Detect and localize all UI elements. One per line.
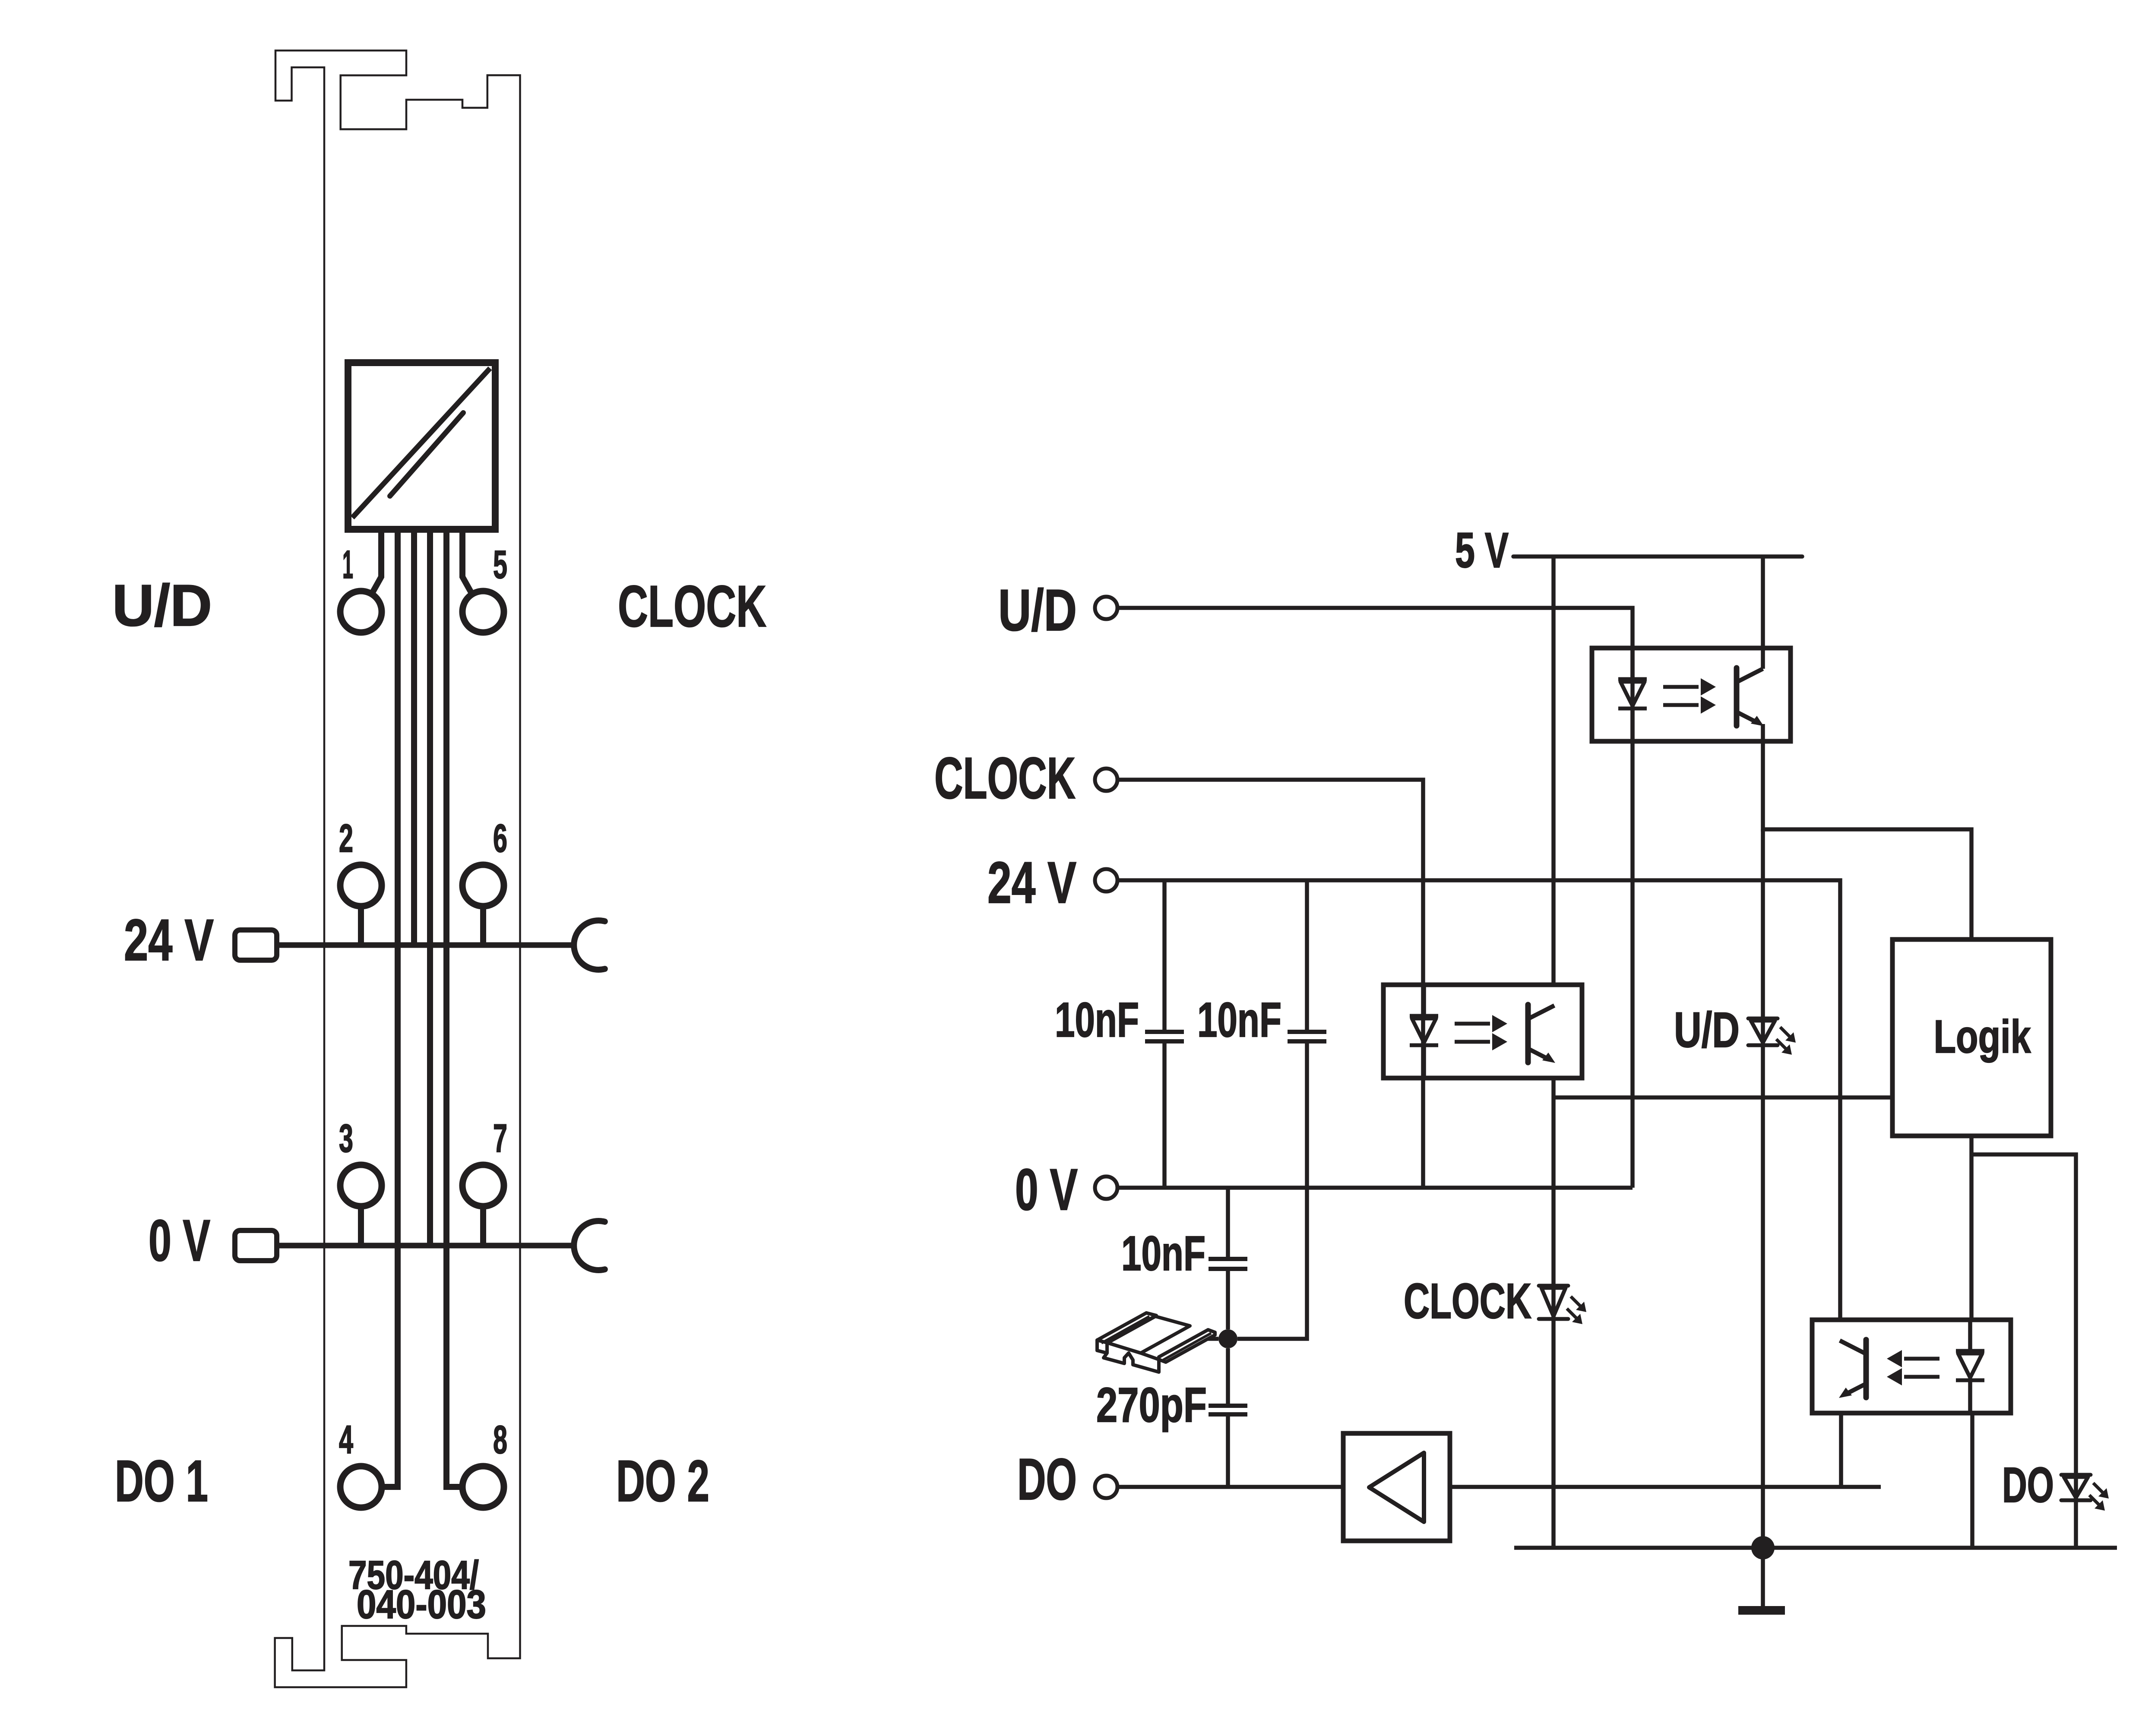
svg-text:5: 5	[493, 543, 507, 587]
svg-text:CLOCK: CLOCK	[1404, 1274, 1531, 1329]
svg-text:CLOCK: CLOCK	[934, 745, 1076, 811]
svg-text:10nF: 10nF	[1055, 993, 1139, 1047]
svg-text:DO 1: DO 1	[115, 1448, 208, 1514]
svg-text:24 V: 24 V	[987, 850, 1076, 915]
svg-text:2: 2	[339, 816, 353, 860]
svg-text:U/D: U/D	[998, 577, 1077, 643]
svg-text:6: 6	[493, 816, 507, 860]
svg-text:U/D: U/D	[1674, 1002, 1740, 1058]
svg-text:0 V: 0 V	[1015, 1157, 1078, 1222]
svg-text:1: 1	[342, 543, 353, 587]
svg-text:DO: DO	[2002, 1458, 2054, 1513]
svg-text:4: 4	[339, 1418, 353, 1462]
svg-text:270pF: 270pF	[1096, 1378, 1207, 1432]
svg-text:3: 3	[339, 1116, 353, 1160]
svg-text:24 V: 24 V	[124, 907, 214, 973]
svg-text:5 V: 5 V	[1455, 523, 1509, 578]
svg-text:10nF: 10nF	[1197, 993, 1281, 1047]
svg-text:040-003: 040-003	[357, 1582, 486, 1627]
svg-text:U/D: U/D	[112, 572, 212, 638]
svg-text:CLOCK: CLOCK	[618, 573, 766, 639]
svg-text:DO 2: DO 2	[616, 1448, 709, 1514]
svg-text:7: 7	[493, 1116, 507, 1160]
svg-text:0 V: 0 V	[149, 1208, 210, 1273]
svg-text:8: 8	[493, 1418, 507, 1462]
svg-text:Logik: Logik	[1934, 1010, 2031, 1062]
svg-text:DO: DO	[1017, 1446, 1077, 1512]
svg-text:10nF: 10nF	[1121, 1226, 1205, 1281]
